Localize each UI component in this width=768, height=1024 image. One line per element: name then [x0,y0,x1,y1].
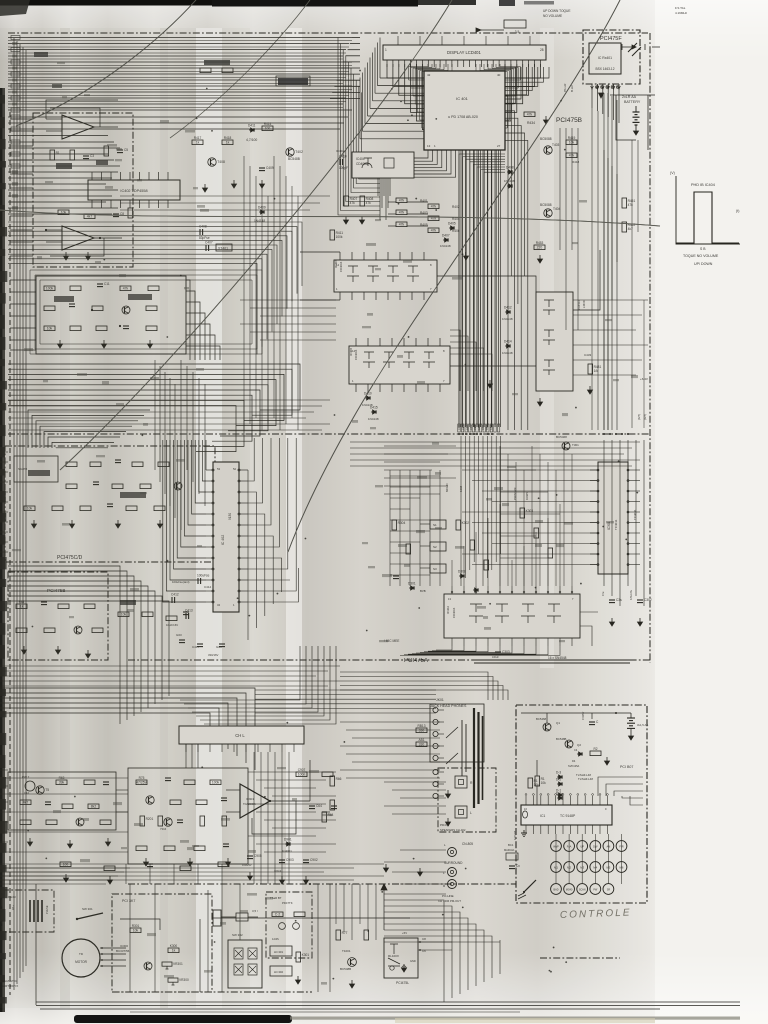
IC406 innards [336,263,432,291]
crease line 4 [0,210,660,226]
resistor R417 [192,140,203,145]
pot VR301 [162,962,172,966]
gnd arrows bottom [384,864,389,872]
IC Rx401 box [589,43,621,74]
module dashed box op-amp block [33,113,133,267]
wire bus top-left horizontals [8,38,352,111]
module SW302 block [228,940,262,988]
component 3.5 jack top [504,20,526,28]
border dash-dot lower divider [128,659,650,661]
pot VR300 [168,978,178,982]
crease line 1 [16,0,196,126]
scan artifact mark top [499,0,515,6]
IC404 innards [362,158,372,168]
IC402 ctr box [88,180,180,200]
transistor T403 BC5088 [544,146,552,154]
wire bus top-left second group [8,115,348,168]
res ladder R401-406 [388,198,460,233]
wire PD475A inner verticals [500,446,572,586]
cap C 47/25V [589,721,595,723]
diode D414 [505,344,511,348]
border dash-dot right [649,33,651,663]
op-amp b wires [46,229,62,231]
IC U402 TC9130 tall box [213,462,239,612]
IC402 pin combs [92,172,168,208]
LCD pin comb [387,60,540,67]
scan artifact dashes top [524,1,554,5]
motor leads [100,947,126,967]
audio extra parts [60,862,71,867]
op-amp U402a triangle [62,115,94,139]
module DH43 connector box [2,890,54,932]
res R301 [130,928,141,933]
crease overlay 1 [16,0,196,126]
wire bundle bottom of PD475A to CH L [180,646,336,724]
crease line 5 [170,0,310,138]
scan artifact bottom smudge [395,1018,655,1023]
diodes D408 D406 col [507,170,513,174]
wire audio bottom extra horizontals [0,864,384,880]
bus left end labels [11,36,20,113]
IC303 pins [590,469,640,566]
IC1 top pin comb [525,794,608,805]
transistor T404 BC5088 [544,209,552,217]
right lower verticals [336,884,376,940]
battery rail wires [616,95,636,140]
gnd pair PD475L [402,964,407,972]
audio mid components [128,768,248,866]
wire battery column verticals [603,93,605,430]
diode D410 D413 labels [365,396,371,400]
IC408 CD4066 box [349,346,450,384]
display LCD401 box [383,45,546,60]
IC402 right nest wires [248,438,298,640]
IC404 CD4066 box top [352,152,414,178]
wire horizontal stack above PD475C/D [8,400,330,430]
bottom long lines [36,884,740,1012]
opamp901 wires [226,789,240,791]
IC406 pin combs [340,252,424,300]
transistor T301 [562,442,570,450]
resistor R434 [524,112,535,117]
wire bus topleft extra [8,41,352,108]
scan artifact bar top-center [212,0,418,7]
diode D409 [259,210,265,214]
battery symbol [635,106,637,112]
switch column S1-S3 [420,520,446,573]
graph IC404 axes [676,176,740,244]
component cluster top bus 1 [200,68,211,73]
PD B07 top rail [521,712,631,714]
CH L pin comb [186,744,294,752]
wires bus to opamp block [10,119,33,256]
res R453 [534,245,545,250]
transistor T1001 [348,958,357,967]
svg-text:(t): (t) [736,209,739,213]
vertical trunk bundle center [458,150,500,432]
switch PW7 [25,781,35,791]
jack plug mid-bottom [213,910,221,926]
ctrl key row 3 [551,884,614,895]
wire IC401 right fan up to LCD [505,67,549,103]
wire left-of-475B verticals [560,128,578,330]
svg-text:S B: S B [700,247,706,251]
PD47TK contents [272,912,283,917]
transistor T402 [286,148,294,156]
IC408 pin combs [356,338,440,392]
left mid components [44,282,159,348]
module PD475B dashed box [8,572,108,660]
capacitor C409 [259,167,265,169]
transistor T207 [164,818,172,826]
ctrl key column wires [556,834,622,884]
crease line 3 [60,0,452,470]
center wires IC406-IC408 web [240,250,600,391]
IC402 left nest wires [163,440,206,602]
double line above PD B07 [474,659,630,661]
module PD475F dashed box [583,30,640,84]
wire horizontals to headphones [0,688,255,770]
op-amp feedback wires [46,100,118,131]
top right tick arrows [622,44,660,50]
component cluster top bus 2 [278,78,308,85]
diode D411 and R414 [249,128,255,132]
center-bottom small parts [392,483,489,593]
PD475B contents [16,600,189,658]
wire column x240-330 verticals [244,156,298,430]
IC302 CD4066 box [444,594,580,638]
IC302 pin combs [451,586,573,646]
wire concentric rect mid-left [30,270,262,354]
IC U401 uPD1708 [424,71,505,150]
res RB13 330 [416,728,427,733]
IC408 innards [352,349,445,383]
module PD B07 dashed box [516,705,647,903]
res column far right audio [330,776,342,810]
module PD47TK box [266,892,312,958]
wire nest mid-left big [8,222,302,354]
jack symbols [430,704,484,808]
component smudges scattered [12,62,638,985]
res R419 pair [566,140,577,145]
wire IC401 right drops [505,96,528,430]
res R451 R452 [622,198,627,208]
cap C414 [197,578,199,584]
module PD475C/D dashed box [5,446,215,562]
LD301 LD302 [270,946,292,956]
left mid cluster box [36,276,186,354]
wire top-left third group [8,170,118,214]
PD475A inner horizontal grid [390,476,440,575]
capacitor C407 crystal XT401 [205,245,207,251]
wire trunk continuation below divider [461,436,501,586]
tone overlay left [0,28,250,1008]
res K301 [296,952,301,962]
op-amp U402b triangle [62,226,94,250]
SW302 contacts [234,948,257,975]
wire mid verticals above IC402 [155,360,205,530]
relay contacts [388,944,400,966]
LCD to IC401 right nest [476,64,540,130]
PD475F pin circles [596,86,620,99]
scan artifact bar top-left [0,0,212,6]
wire left edge verticals [14,38,26,990]
caps right of opamp [242,768,337,884]
wires PD475F down [592,90,619,123]
ctrl key row 1 [551,841,627,852]
opamp feedback [252,801,296,834]
capacitor C408 [199,229,201,235]
module PD J87 dashed box [112,894,212,992]
PD475F pin comb [591,84,621,90]
border dash-dot bottom-section top [128,883,516,885]
LCD to IC401 left nest [387,64,452,130]
graph pulse waveform [676,192,739,243]
wire staircase lower-left 1 [8,566,169,724]
opamp block components [45,146,133,260]
res R1 ctrl [528,778,533,788]
box CH L [179,726,304,744]
junction dots divider [458,433,629,435]
svg-text:4.19MHz: 4.19MHz [675,11,688,15]
IC407 innards [543,300,555,375]
audio cluster left components [8,772,116,848]
IC303 TC4011 tall box [598,462,628,574]
audio region wires [0,760,310,852]
transistor T408 [208,158,216,166]
res R408 R407 vertical [360,196,365,206]
svg-text:F.S TAL: F.S TAL [675,6,686,10]
dash-dot bottom borders [112,991,312,993]
hatch marks PD475F [628,43,641,56]
speaker terminals R L [446,776,474,826]
wires left mid block [10,280,220,360]
wires into jack [340,722,440,778]
component cluster left bus small [34,52,48,57]
res R1 vertical [535,776,540,786]
pin labels at divider [457,425,493,430]
res K300 [168,948,179,953]
wires right-center web [384,446,598,646]
IC402 left pins [206,469,214,603]
audio extra wires [126,744,336,884]
transistor Q2 BC548B [565,740,573,748]
PD475C/D contents [14,456,182,528]
crease overlay 3 [60,0,452,470]
ground marks top [260,180,265,188]
bottom mid wires [155,884,410,992]
diode D407 pair [443,238,449,242]
wire nest into left blocks [28,410,150,448]
wire nest top-center down [338,38,380,216]
nested corner bundle right-bottom [384,900,500,1002]
IC407 CD4066 vertical box [536,292,573,391]
svg-text:100: 100 [63,863,69,867]
scan artifact bottom bar [74,1015,292,1023]
crease line 2 [288,0,620,552]
gnd arrows center [488,380,493,388]
IC1 bottom pin comb [526,825,607,834]
IC401 left side wires [360,38,424,139]
wire headphones feed extension [255,690,436,713]
IC402 right pins [238,469,248,603]
scan artifact bottom line [290,1017,740,1020]
res R2 [590,751,601,756]
res AB1 330 [416,742,427,747]
transistor T300 [144,962,152,970]
crease overlay 4 [0,210,660,226]
diodes D1 D2 [557,782,563,786]
svg-text:TOQUE NO VOLUME: TOQUE NO VOLUME [683,254,719,258]
IC401 bottom pin comb [378,150,501,427]
switch SW301 [77,913,103,919]
diode D412 [505,310,511,314]
resistor R418 [222,140,233,145]
border dash-dot top [8,32,648,34]
scan artifact corner blob [0,0,30,16]
wire right column extra [631,140,633,428]
PD J87 wires [120,884,208,992]
wire PD475A top bus [350,442,640,466]
diode D4 SVK135A [577,752,583,756]
IC1 left parts [523,811,528,818]
res K303 group [520,508,525,518]
ctrl switch bottom-left [524,880,536,892]
IC303 left pin long wires [462,470,597,565]
crease overlay 2 [288,0,620,552]
PD B07 right nest into IC1 [598,777,643,805]
wire horizontals y664-686 [0,666,340,686]
LCD top ticks [398,36,530,45]
wires speaker feeds [384,782,446,894]
battery 3x1.5AA [627,713,648,740]
wires left blocks to bus [0,452,8,552]
wire y150-215 mid horizontals [120,196,330,210]
wire right column verticals [604,150,617,430]
svg-text:PHD IB IC404: PHD IB IC404 [691,183,715,187]
cap C412 C413 [171,597,173,603]
scan artifact left edge band [0,88,5,1012]
IC302 top fan [452,504,560,586]
wire bus corner bundle to IC401 [330,38,360,99]
caps below IC303 [492,589,652,659]
diode D901 [285,842,291,846]
resistor R411 [330,230,335,240]
svg-text:UP/ DOWN: UP/ DOWN [694,262,713,266]
trunk top nest join [459,154,505,427]
right verticals to bottom [604,440,644,606]
relay wires [418,941,452,943]
wire IC407 right horizontals [573,300,648,375]
wire PD475F down to column [592,108,598,430]
ctrl key row 2 [551,862,627,873]
res R481 [588,364,593,374]
wire staircase nest mid-left [8,364,300,452]
wire trunk bottom center [0,752,289,884]
op-amp IC901 TDA2030A [240,784,270,818]
svg-text:(V): (V) [670,171,675,175]
wire nest above jack [340,672,508,700]
IC302 bottom fan [400,646,560,655]
border dash-dot mid divider [8,433,650,435]
IC1 TC9148P box [521,805,612,825]
motor M300 circle [62,939,100,977]
IC406 CD4066 box [334,260,437,292]
junction dots scattered [27,70,638,980]
module speakers dashed box [438,768,496,832]
IC302 innards [448,597,574,623]
transistor Q1 BC5468 [543,723,551,731]
res near T1001 [336,930,341,940]
border left dashed [9,112,11,995]
cap C410 100pF [339,159,341,165]
scan artifact bar top tail [418,0,476,5]
relay RL100X box [384,938,418,978]
diodes D3 D2 ctrl [557,775,563,779]
